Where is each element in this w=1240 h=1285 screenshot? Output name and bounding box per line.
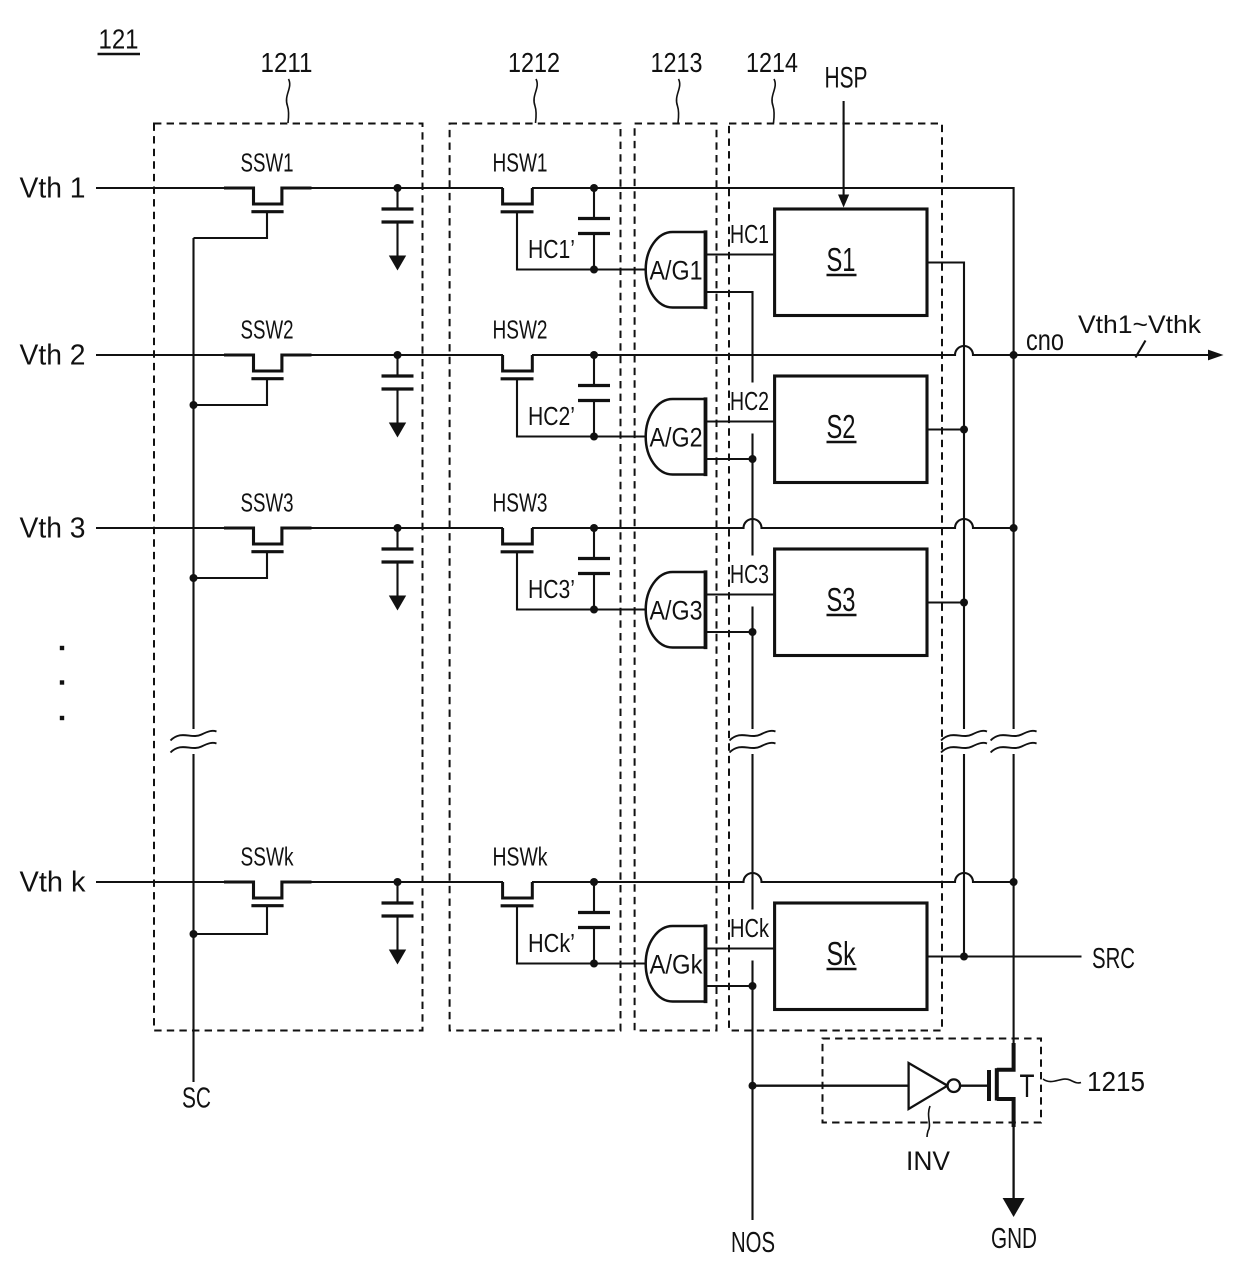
svg-text:S1: S1: [827, 241, 856, 278]
svg-text:1212: 1212: [508, 47, 560, 78]
svg-text:NOS: NOS: [731, 1227, 775, 1259]
svg-text:A/G1: A/G1: [650, 256, 703, 286]
svg-text:cno: cno: [1026, 324, 1064, 357]
svg-text:HCk: HCk: [730, 913, 770, 943]
svg-text:Vth 2: Vth 2: [20, 340, 86, 372]
svg-text:Vth1~Vthk: Vth1~Vthk: [1078, 311, 1202, 339]
svg-text:HSW2: HSW2: [493, 315, 548, 345]
svg-text:S3: S3: [827, 581, 856, 618]
svg-text:HC2: HC2: [730, 386, 769, 416]
svg-text:HC3: HC3: [730, 559, 769, 589]
svg-text:A/G2: A/G2: [650, 423, 703, 453]
svg-text:SRC: SRC: [1092, 943, 1135, 975]
svg-text:Vth 1: Vth 1: [20, 173, 86, 205]
svg-text:121: 121: [99, 24, 139, 55]
svg-text:HC2’: HC2’: [528, 401, 575, 431]
svg-text:HSWk: HSWk: [493, 842, 549, 872]
svg-text:1214: 1214: [746, 47, 798, 78]
svg-text:T: T: [1020, 1068, 1035, 1104]
svg-text:1213: 1213: [651, 47, 703, 78]
svg-text:1211: 1211: [261, 47, 313, 78]
svg-text:SSWk: SSWk: [241, 842, 295, 872]
svg-text:Vth 3: Vth 3: [20, 513, 86, 545]
svg-text:SSW2: SSW2: [241, 315, 294, 345]
svg-text:Sk: Sk: [827, 935, 856, 972]
svg-text:HC3’: HC3’: [528, 574, 575, 604]
svg-text:Vth k: Vth k: [20, 867, 86, 899]
svg-text:SSW3: SSW3: [241, 488, 294, 518]
svg-text:HCk’: HCk’: [528, 928, 575, 958]
svg-text:1215: 1215: [1087, 1066, 1145, 1097]
svg-text:HSW3: HSW3: [493, 488, 548, 518]
svg-text:GND: GND: [991, 1223, 1037, 1255]
svg-text:SC: SC: [182, 1083, 211, 1115]
svg-text:HC1: HC1: [730, 219, 769, 249]
svg-text:HC1’: HC1’: [528, 234, 575, 264]
svg-text:A/G3: A/G3: [650, 596, 703, 626]
svg-text:INV: INV: [906, 1146, 950, 1176]
svg-text:HSP: HSP: [825, 62, 868, 95]
svg-text:A/Gk: A/Gk: [650, 950, 703, 980]
svg-text:S2: S2: [827, 408, 856, 445]
svg-text:SSW1: SSW1: [241, 148, 294, 178]
svg-text:HSW1: HSW1: [493, 148, 548, 178]
